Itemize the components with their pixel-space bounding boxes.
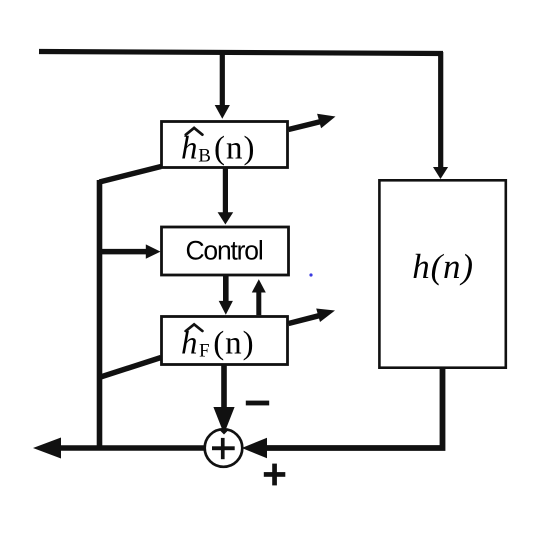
arrow tip overlapping circle top	[219, 430, 229, 435]
wire: output line to the left	[60, 445, 205, 451]
stray blue dot	[309, 273, 312, 276]
block h(n) box	[379, 180, 505, 367]
diagonal wire hB left to vertical bus	[100, 167, 162, 183]
wire: right vertical drop to h(n)	[438, 52, 443, 168]
summation plus	[212, 446, 235, 450]
wire: stem from top line down to hB box	[220, 53, 225, 106]
svg-text:h: h	[181, 326, 198, 362]
svg-text:Control: Control	[185, 236, 262, 266]
wire: stem Control to hF	[223, 276, 229, 302]
block hF(n) box	[162, 317, 288, 365]
diagonal output arrow from hB box	[289, 122, 322, 130]
block hB(n) box	[162, 122, 288, 168]
summation node circle	[205, 429, 243, 467]
label hB(n): circumflex hat	[186, 128, 203, 135]
block Control box	[162, 227, 289, 275]
up arrow hF to Control	[256, 292, 261, 316]
wire: left vertical bus	[97, 180, 103, 448]
wire: stem hB to Control	[223, 169, 228, 214]
svg-text:h(n): h(n)	[412, 247, 474, 286]
wire: stem hF down to summation	[221, 366, 227, 409]
wire: feedback from h(n) bottom	[266, 369, 443, 449]
arrowhead into hF top	[219, 301, 233, 315]
plus sign	[264, 472, 286, 477]
arrowhead into summation right	[242, 438, 267, 458]
wire: top horizontal input line	[39, 52, 443, 54]
wire: branch into Control left	[100, 249, 147, 255]
svg-text:B: B	[198, 146, 211, 167]
big arrowhead into summation top	[213, 407, 234, 434]
svg-text:F: F	[199, 341, 210, 362]
output arrowhead (left)	[33, 438, 61, 459]
diagonal output arrow from hF box	[289, 316, 320, 324]
svg-text:(n): (n)	[214, 131, 255, 167]
minus sign	[246, 401, 269, 406]
arrowhead into Control top	[218, 212, 234, 224]
arrowhead into hB box	[215, 105, 230, 119]
diagonal wire hF left to vertical bus	[99, 358, 161, 378]
label hF(n): circumflex hat	[186, 324, 203, 331]
arrowhead into h(n)	[433, 167, 448, 179]
svg-text:(n): (n)	[213, 326, 254, 362]
arrowhead into Control left	[146, 244, 161, 258]
svg-text:h: h	[181, 131, 198, 167]
